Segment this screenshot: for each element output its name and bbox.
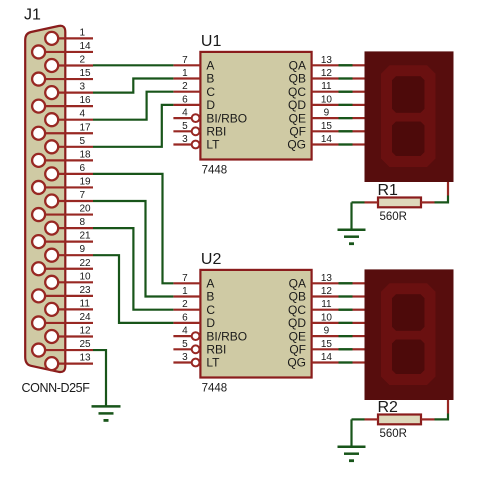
- svg-text:A: A: [206, 277, 214, 291]
- svg-text:J1: J1: [24, 7, 41, 24]
- svg-text:QB: QB: [289, 72, 306, 86]
- svg-text:QB: QB: [289, 290, 306, 304]
- svg-text:2: 2: [182, 81, 188, 92]
- svg-text:QA: QA: [289, 277, 306, 291]
- svg-text:QC: QC: [288, 85, 306, 99]
- svg-text:14: 14: [80, 41, 92, 52]
- svg-text:14: 14: [321, 134, 333, 145]
- svg-text:D: D: [206, 316, 215, 330]
- svg-text:5: 5: [182, 121, 188, 132]
- svg-text:8: 8: [80, 217, 86, 228]
- svg-text:A: A: [206, 59, 214, 73]
- svg-text:RBI: RBI: [206, 343, 226, 357]
- svg-text:R2: R2: [378, 399, 399, 416]
- svg-text:QD: QD: [288, 98, 306, 112]
- svg-text:6: 6: [182, 312, 188, 323]
- svg-text:R1: R1: [378, 182, 399, 199]
- svg-text:RBI: RBI: [206, 125, 226, 139]
- svg-text:12: 12: [80, 326, 92, 337]
- svg-text:13: 13: [80, 353, 92, 364]
- svg-text:QE: QE: [289, 329, 306, 343]
- svg-text:6: 6: [182, 94, 188, 105]
- svg-text:18: 18: [80, 149, 92, 160]
- svg-text:1: 1: [182, 286, 188, 297]
- svg-text:15: 15: [80, 68, 92, 79]
- svg-text:QC: QC: [288, 303, 306, 317]
- svg-text:6: 6: [80, 163, 86, 174]
- svg-text:C: C: [206, 303, 215, 317]
- svg-text:7: 7: [182, 55, 188, 66]
- svg-text:23: 23: [80, 285, 92, 296]
- svg-text:BI/RBO: BI/RBO: [206, 329, 247, 343]
- svg-text:QG: QG: [287, 356, 306, 370]
- svg-text:7448: 7448: [202, 165, 228, 177]
- svg-text:LT: LT: [206, 356, 220, 370]
- svg-text:LT: LT: [206, 138, 220, 152]
- svg-text:CONN-D25F: CONN-D25F: [22, 381, 91, 395]
- svg-text:QD: QD: [288, 316, 306, 330]
- svg-text:15: 15: [321, 339, 333, 350]
- svg-text:7448: 7448: [202, 383, 228, 395]
- svg-text:12: 12: [321, 68, 333, 79]
- svg-text:5: 5: [182, 339, 188, 350]
- svg-text:19: 19: [80, 176, 92, 187]
- svg-text:10: 10: [80, 271, 92, 282]
- svg-text:B: B: [206, 290, 214, 304]
- svg-text:2: 2: [182, 299, 188, 310]
- svg-text:22: 22: [80, 258, 92, 269]
- svg-text:25: 25: [80, 339, 92, 350]
- svg-text:7: 7: [182, 273, 188, 284]
- svg-text:QF: QF: [289, 343, 306, 357]
- svg-text:13: 13: [321, 55, 333, 66]
- svg-text:2: 2: [80, 55, 86, 66]
- svg-text:17: 17: [80, 122, 92, 133]
- svg-text:QG: QG: [287, 138, 306, 152]
- svg-text:4: 4: [182, 326, 188, 337]
- svg-text:QF: QF: [289, 125, 306, 139]
- svg-text:5: 5: [80, 136, 86, 147]
- svg-text:U1: U1: [201, 33, 222, 50]
- svg-text:14: 14: [321, 352, 333, 363]
- svg-text:24: 24: [80, 312, 92, 323]
- svg-text:16: 16: [80, 95, 92, 106]
- svg-text:560R: 560R: [380, 428, 408, 440]
- svg-text:12: 12: [321, 286, 333, 297]
- svg-text:9: 9: [324, 326, 330, 337]
- svg-text:21: 21: [80, 231, 92, 242]
- svg-text:BI/RBO: BI/RBO: [206, 111, 247, 125]
- svg-text:QA: QA: [289, 59, 306, 73]
- svg-text:13: 13: [321, 273, 333, 284]
- svg-text:U2: U2: [201, 251, 222, 268]
- svg-text:1: 1: [182, 68, 188, 79]
- svg-text:10: 10: [321, 312, 333, 323]
- svg-text:11: 11: [321, 299, 332, 310]
- svg-text:4: 4: [80, 109, 86, 120]
- svg-text:9: 9: [324, 108, 330, 119]
- svg-text:4: 4: [182, 108, 188, 119]
- svg-text:7: 7: [80, 190, 86, 201]
- svg-text:9: 9: [80, 244, 86, 255]
- svg-text:20: 20: [80, 204, 92, 215]
- svg-text:11: 11: [80, 298, 91, 309]
- svg-text:C: C: [206, 85, 215, 99]
- svg-text:B: B: [206, 72, 214, 86]
- svg-text:15: 15: [321, 121, 333, 132]
- svg-text:QE: QE: [289, 111, 306, 125]
- svg-text:D: D: [206, 98, 215, 112]
- svg-text:3: 3: [182, 352, 188, 363]
- svg-text:11: 11: [321, 81, 332, 92]
- svg-text:560R: 560R: [380, 211, 408, 223]
- svg-text:3: 3: [80, 82, 86, 93]
- svg-text:10: 10: [321, 94, 333, 105]
- svg-text:1: 1: [80, 27, 86, 38]
- svg-text:3: 3: [182, 134, 188, 145]
